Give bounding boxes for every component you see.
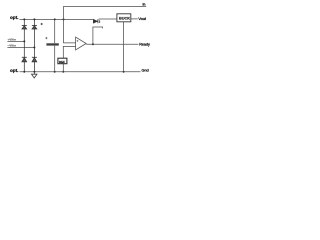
diode upper-left (optional bridge diode): [22, 19, 27, 41]
node output-switch: [92, 43, 94, 45]
node rail-vertical: [63, 18, 65, 20]
block BUCK converter: [117, 14, 131, 22]
node rail-colB: [33, 18, 35, 20]
wire op-amp output / Ready line: [86, 43, 138, 45]
svg-text:+V/I in: +V/I in: [7, 38, 16, 42]
capacitor C storage (polarized): [45, 19, 59, 71]
op-amp U1 comparator: [76, 37, 87, 50]
node gnd-colB: [33, 71, 35, 73]
node ref-gnd: [62, 71, 64, 73]
svg-text:Vout: Vout: [138, 17, 147, 21]
svg-text:−V/I in: −V/I in: [7, 44, 16, 48]
wire +input: [7, 40, 24, 42]
node colB-input: [33, 47, 35, 49]
svg-text:Ready: Ready: [139, 42, 150, 46]
svg-text:BUCK: BUCK: [119, 17, 130, 21]
label + (rectifier output polarity): [41, 23, 43, 25]
wire switch control (from op-amp output): [93, 27, 103, 44]
wire -input to REF: [63, 46, 75, 58]
svg-text:opt.: opt.: [10, 68, 18, 73]
node buck-gnd: [123, 71, 125, 73]
wire top rail (rectifier positive rail): [20, 18, 94, 20]
wire BUCK ground pin: [123, 22, 125, 72]
node colA-input: [23, 40, 25, 42]
diode lower-left: [22, 41, 27, 71]
wire REF to ground: [62, 64, 64, 72]
block REF reference: [58, 58, 67, 64]
svg-text:Gnd: Gnd: [142, 69, 149, 73]
svg-text:opt.: opt.: [10, 15, 18, 20]
diode lower-right: [32, 48, 37, 72]
wire ground rail: [20, 71, 141, 73]
diode upper-right (optional bridge diode): [32, 19, 37, 47]
svg-text:REF: REF: [59, 60, 65, 64]
wire Vout: [131, 18, 138, 20]
node cap-gnd: [54, 71, 56, 73]
node gnd-colA: [23, 71, 25, 73]
wire In input (top): [64, 7, 147, 43]
wire -input: [7, 47, 34, 49]
svg-text:In: In: [143, 3, 146, 7]
diode series (switch) D5: [93, 19, 117, 23]
ground symbol: [32, 72, 38, 78]
node rail-colA: [23, 18, 25, 20]
node rail-cap: [54, 18, 56, 20]
